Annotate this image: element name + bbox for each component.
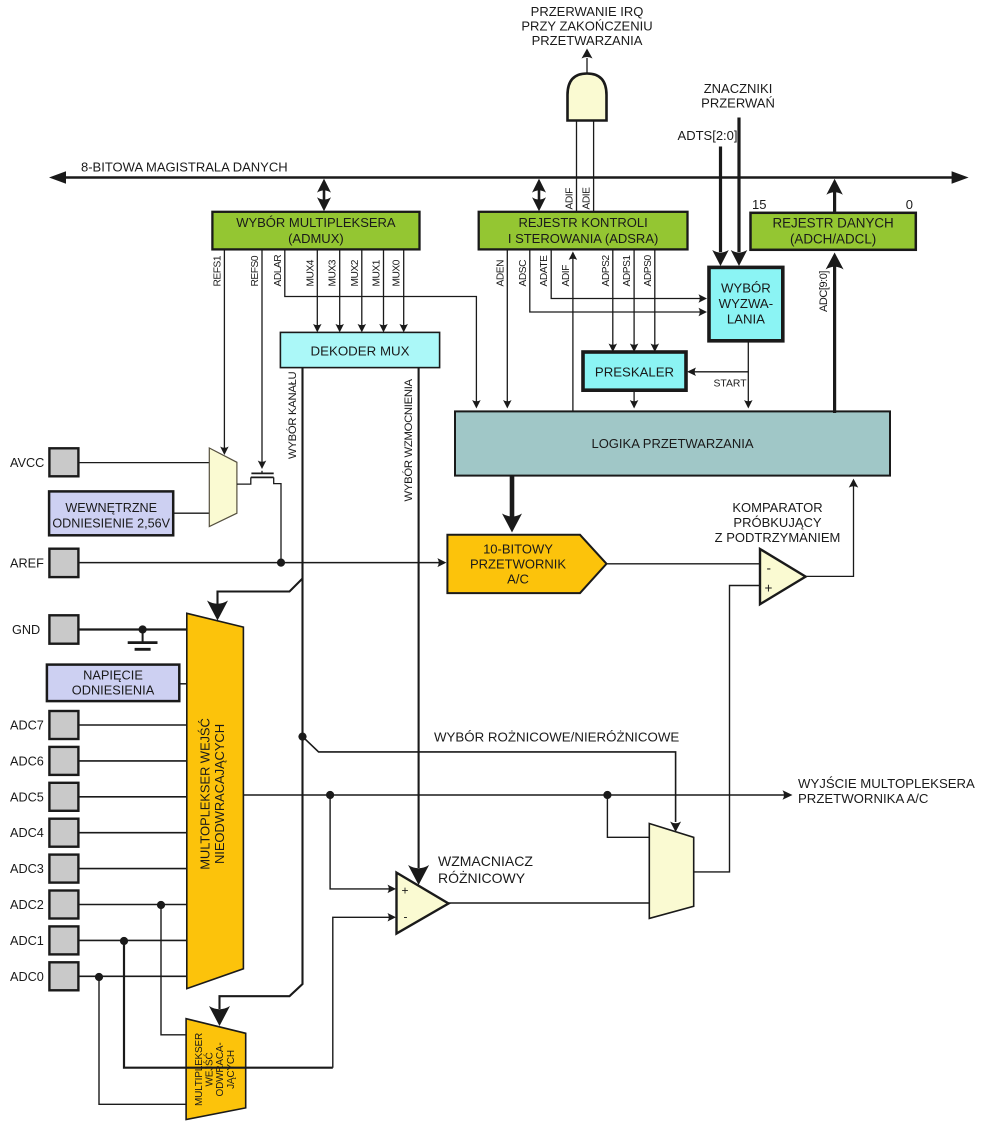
svg-text:15: 15 — [752, 197, 766, 212]
wire ADATE to trigger-select — [551, 249, 707, 302]
label ADC1 — [10, 934, 44, 948]
svg-text:ADPS0: ADPS0 — [643, 255, 654, 287]
label ADSC — [518, 260, 529, 287]
label START — [714, 379, 748, 390]
svg-text:+: + — [765, 581, 773, 596]
svg-text:REFS0: REFS0 — [250, 255, 261, 286]
ground symbol — [128, 630, 158, 650]
wire ADC7 to non-inverting mux — [78, 724, 186, 726]
wire ADC1 to non-inverting mux — [78, 939, 186, 941]
svg-text:WYBÓR ROŻNICOWE/NIERÓŻNICOWE: WYBÓR ROŻNICOWE/NIERÓŻNICOWE — [434, 730, 679, 745]
wire MUX0 — [399, 249, 408, 332]
node ADC1 junction — [120, 937, 128, 945]
svg-text:MUX4: MUX4 — [305, 259, 316, 286]
svg-text:0: 0 — [906, 197, 913, 212]
label ADPS1 — [622, 255, 633, 287]
svg-text:ADATE: ADATE — [539, 255, 550, 287]
channel select branch to non-inverting mux — [207, 579, 303, 621]
block WYBÓR WYZWALANIA (trigger select) — [709, 267, 783, 340]
svg-text:Z PODTRZYMANIEM: Z PODTRZYMANIEM — [715, 530, 841, 545]
svg-text:(ADCH/ADCL): (ADCH/ADCL) — [790, 232, 876, 247]
label ZNACZNIKI PRZERWAŃ — [701, 81, 775, 111]
wire mux output to single-ended input of output mux — [607, 795, 649, 837]
label ADIE (gate input) — [582, 187, 593, 210]
label ADC5 — [10, 790, 44, 804]
label MUX1 — [372, 259, 383, 286]
label ADC3 — [10, 862, 44, 876]
register box ADMUX — [212, 212, 419, 250]
wire comparator output to processing logic — [807, 479, 859, 577]
node AREF junction — [277, 559, 285, 567]
svg-text:ADPS2: ADPS2 — [601, 255, 612, 287]
block PRESKALER — [583, 352, 686, 390]
wire ADSC to trigger-select — [530, 249, 707, 316]
block MULTOPLEKSER WEJŚĆ NIEODWRACAJĄCYCH (non-inverting input mux) — [187, 613, 244, 988]
svg-text:ODNIESIENIA: ODNIESIENIA — [72, 683, 155, 698]
label MUX3 — [328, 259, 339, 286]
label ADPS2 — [601, 255, 612, 287]
svg-text:-: - — [767, 561, 772, 576]
wire ADLAR to processing logic — [285, 249, 481, 408]
svg-text:MULTIPLEKSER: MULTIPLEKSER — [194, 1033, 205, 1106]
label WYBÓR KANAŁU — [286, 371, 299, 459]
svg-text:ADC5: ADC5 — [10, 790, 44, 804]
node mux-output branch to amplifier — [326, 791, 334, 799]
svg-text:ADPS1: ADPS1 — [622, 255, 633, 287]
net WYBÓR KANAŁU (channel select trunk) — [209, 368, 303, 1026]
wire mux output to amplifier + input — [330, 795, 396, 893]
wire ADC0 to inverting mux — [99, 977, 188, 1104]
svg-text:WZMACNIACZ: WZMACNIACZ — [438, 853, 533, 869]
reference mux (trapezoid) — [209, 448, 237, 527]
pin AREF — [49, 549, 78, 577]
pin AVCC — [49, 448, 78, 476]
label ADC[9:0] — [818, 271, 830, 312]
svg-text:-: - — [404, 910, 408, 924]
bidirectional arrow ADSRA-bus — [532, 179, 546, 212]
node ADC0 junction — [95, 973, 103, 981]
svg-text:REJESTR DANYCH: REJESTR DANYCH — [772, 216, 893, 231]
svg-text:PRÓBKUJĄCY: PRÓBKUJĄCY — [733, 515, 821, 530]
svg-text:PRZETWORNIKA A/C: PRZETWORNIKA A/C — [798, 791, 929, 806]
block NAPIĘCIE ODNIESIENIA (reference voltage) — [47, 665, 179, 702]
wire inverting mux output to amplifier - input — [333, 913, 396, 1068]
svg-text:DEKODER MUX: DEKODER MUX — [311, 344, 410, 359]
label ADLAR — [273, 255, 284, 287]
pin ADC3 — [49, 855, 78, 883]
wire ADIF to and-gate — [576, 121, 578, 212]
wire prescaler to processing logic — [630, 390, 639, 408]
label ADC2 — [10, 898, 44, 912]
label MUX4 — [305, 259, 316, 286]
label WZMACNIACZ RÓŻNICOWY — [438, 853, 533, 886]
wire ADC4 to non-inverting mux — [78, 832, 186, 834]
label WYBÓR WZMOCNIENIA — [402, 378, 415, 501]
wire ADEN to processing logic — [503, 249, 512, 408]
block LOGIKA PRZETWARZANIA (processing logic) — [455, 411, 890, 475]
svg-text:JĄCYCH: JĄCYCH — [226, 1050, 237, 1089]
block 10-BITOWY PRZETWORNIK A/C — [447, 535, 606, 593]
svg-text:PRZETWARZANIA: PRZETWARZANIA — [532, 33, 643, 48]
label IRQ interrupt text — [521, 4, 652, 48]
wire ADPS1 to prescaler — [630, 249, 639, 352]
label ADC4 — [10, 826, 44, 840]
svg-text:GND: GND — [12, 623, 40, 637]
wire ADC3 to non-inverting mux — [78, 868, 186, 870]
label ADATE — [539, 255, 550, 287]
svg-text:(ADMUX): (ADMUX) — [288, 231, 344, 246]
svg-text:START: START — [714, 379, 748, 390]
svg-text:I STEROWANIA (ADSRA): I STEROWANIA (ADSRA) — [508, 231, 658, 246]
node GND junction — [139, 625, 147, 633]
transistor Q1 (reference switch) — [237, 471, 281, 563]
bidirectional arrow ADMUX-bus — [317, 179, 331, 212]
svg-text:LANIA: LANIA — [727, 312, 765, 327]
op-amp U3 (differential amplifier) — [397, 873, 449, 934]
svg-text:WEWNĘTRZNE: WEWNĘTRZNE — [65, 501, 157, 515]
wire ADC to comparator — [607, 563, 761, 565]
svg-text:ADEN: ADEN — [495, 260, 506, 287]
svg-text:+: + — [402, 884, 409, 898]
net WYBÓR WZMOCNIENIA (gain select) — [408, 368, 429, 885]
wire ADC2 to non-inverting mux — [78, 904, 186, 906]
pin ADC5 — [49, 783, 78, 811]
svg-text:ADC[9:0]: ADC[9:0] — [818, 271, 830, 312]
wire processing logic to 10-bit ADC (thick) — [502, 476, 522, 533]
svg-text:WYBÓR MULTIPLEKSERA: WYBÓR MULTIPLEKSERA — [236, 215, 396, 230]
svg-text:PRZERWAŃ: PRZERWAŃ — [701, 96, 775, 111]
pin ADC2 — [49, 891, 78, 919]
svg-text:ADIF: ADIF — [565, 188, 576, 210]
svg-text:ADSC: ADSC — [518, 260, 529, 287]
svg-text:MUX2: MUX2 — [350, 259, 361, 286]
block DEKODER MUX — [280, 332, 439, 367]
label WYJŚCIE MULTOPLEKSERA PRZETWORNIKA A/C — [798, 776, 975, 806]
bit label 0 — [906, 197, 913, 212]
wire ADC1 through inverting mux to amplifier input net — [124, 941, 333, 1068]
svg-text:ADLAR: ADLAR — [273, 255, 284, 287]
wire GND to non-inverting mux — [78, 628, 186, 630]
label ADIF (gate input) — [565, 188, 576, 210]
wire ADIE to and-gate — [593, 121, 595, 212]
pin GND — [49, 615, 78, 643]
node ADC2 junction — [157, 901, 165, 909]
svg-text:LOGIKA PRZETWARZANIA: LOGIKA PRZETWARZANIA — [591, 436, 753, 451]
svg-text:WYZWA-: WYZWA- — [719, 296, 773, 311]
node mux-output branch to output mux — [603, 791, 611, 799]
wire START to prescaler — [687, 368, 748, 377]
svg-text:A/C: A/C — [507, 571, 529, 586]
wire REFS0 — [258, 249, 267, 469]
block WEWNĘTRZNE ODNIESIENIE 2,56V (internal reference) — [49, 491, 173, 535]
register box ADCH/ADCL — [751, 213, 916, 250]
wire MUX4 — [313, 249, 322, 332]
svg-text:ADTS[2:0]: ADTS[2:0] — [678, 128, 738, 143]
bit label 15 — [752, 197, 766, 212]
wire MUX1 — [379, 249, 388, 332]
svg-text:REJESTR KONTROLI: REJESTR KONTROLI — [518, 215, 647, 230]
svg-text:PRZERWANIE IRQ: PRZERWANIE IRQ — [531, 4, 644, 19]
pin ADC1 — [49, 926, 78, 954]
svg-text:NIEODWRACAJĄCYCH: NIEODWRACAJĄCYCH — [212, 724, 227, 864]
svg-text:RÓŻNICOWY: RÓŻNICOWY — [438, 869, 526, 886]
svg-text:ADC3: ADC3 — [10, 862, 44, 876]
wire reference voltage to mux — [180, 683, 187, 685]
label ADC7 — [10, 719, 44, 733]
wire ADPS2 to prescaler — [609, 249, 618, 352]
pin ADC7 — [49, 711, 78, 739]
svg-text:ADC1: ADC1 — [10, 934, 44, 948]
net WYBÓR ROŻNICOWE/NIERÓŻNICOWE branch to output mux — [303, 737, 682, 832]
label ADTS[2:0] — [678, 128, 738, 143]
svg-text:ADC7: ADC7 — [10, 719, 44, 733]
net multiplexer output (ADC5 row) to output arrow — [243, 790, 792, 800]
net AREF to 10-bit ADC — [78, 558, 446, 567]
wire ADC2 to inverting mux — [161, 905, 186, 1035]
wire ADC6 to non-inverting mux — [78, 760, 186, 762]
svg-text:WYBÓR: WYBÓR — [721, 281, 771, 296]
svg-text:PRZETWORNIK: PRZETWORNIK — [470, 556, 566, 571]
label AREF — [10, 556, 44, 570]
svg-text:NAPIĘCIE: NAPIĘCIE — [83, 668, 143, 683]
label ADIF — [561, 265, 572, 287]
wire ADPS0 to prescaler — [651, 249, 660, 352]
svg-text:AREF: AREF — [10, 556, 44, 570]
comparator U2 (sample and hold) — [760, 549, 806, 604]
svg-text:MUX0: MUX0 — [392, 259, 403, 286]
label 8-BITOWA MAGISTRALA DANYCH — [81, 160, 288, 175]
wire ADTS[2:0] to trigger-select — [712, 147, 729, 267]
label ADC6 — [10, 754, 44, 768]
label REFS1 — [212, 255, 223, 286]
svg-text:REFS1: REFS1 — [212, 255, 223, 286]
svg-text:ADC0: ADC0 — [10, 970, 44, 984]
svg-text:10-BITOWY: 10-BITOWY — [483, 541, 553, 556]
label AVCC — [10, 456, 44, 470]
wire output mux to comparator + input — [694, 586, 760, 872]
svg-text:8-BITOWA MAGISTRALA DANYCH: 8-BITOWA MAGISTRALA DANYCH — [81, 160, 288, 175]
wire trigger-select to processing logic — [744, 341, 753, 409]
svg-text:KOMPARATOR: KOMPARATOR — [732, 500, 822, 515]
svg-text:ADC6: ADC6 — [10, 754, 44, 768]
wire MUX2 — [358, 249, 367, 332]
wire ADIF from processing logic to ADSRA — [569, 251, 578, 411]
bus ADC[9:0] logic to data register — [826, 253, 844, 414]
register box ADSRA — [479, 212, 688, 250]
svg-text:MUX1: MUX1 — [372, 259, 383, 286]
and-gate output wire — [582, 49, 593, 74]
pin ADC0 — [49, 962, 78, 990]
label ADPS0 — [643, 255, 654, 287]
svg-text:ADIF: ADIF — [561, 265, 572, 287]
label ADEN — [495, 260, 506, 287]
node channel-select / diff-select junction — [298, 733, 306, 741]
wire amplifier output to output mux — [449, 902, 650, 904]
label KOMPARATOR PRÓBKUJĄCY Z PODTRZYMANIEM — [715, 500, 841, 545]
svg-text:PRESKALER: PRESKALER — [595, 365, 674, 380]
label REFS0 — [250, 255, 261, 286]
svg-text:MUX3: MUX3 — [328, 259, 339, 286]
svg-text:ADIE: ADIE — [582, 187, 593, 210]
pin ADC4 — [49, 819, 78, 847]
block MULTIPLEKSER WEJŚĆ ODWRACAJĄCYCH (inverting input mux) — [186, 1019, 246, 1120]
svg-text:WEJŚĆ: WEJŚĆ — [203, 1052, 216, 1086]
wire REFS1 — [220, 249, 229, 455]
wire MUX3 — [335, 249, 344, 332]
wire AVCC to reference mux — [78, 462, 209, 464]
svg-text:ADC2: ADC2 — [10, 898, 44, 912]
label ADC0 — [10, 970, 44, 984]
pin ADC6 — [49, 747, 78, 775]
wire ADC5 to non-inverting mux — [78, 796, 186, 798]
label MUX2 — [350, 259, 361, 286]
svg-text:ODNIESIENIE 2,56V: ODNIESIENIE 2,56V — [52, 516, 170, 530]
svg-text:ZNACZNIKI: ZNACZNIKI — [704, 81, 773, 96]
label MUX0 — [392, 259, 403, 286]
svg-text:PRZY ZAKOŃCZENIU: PRZY ZAKOŃCZENIU — [521, 19, 652, 34]
svg-text:AVCC: AVCC — [10, 456, 44, 470]
svg-text:MULTOPLEKSER WEJŚĆ: MULTOPLEKSER WEJŚĆ — [198, 718, 213, 870]
wire ADC0 to non-inverting mux — [78, 975, 186, 977]
svg-text:WYBÓR KANAŁU: WYBÓR KANAŁU — [286, 371, 299, 459]
and-gate U1 (IRQ) — [568, 74, 607, 121]
label WYBÓR ROŻNICOWE/NIERÓŻNICOWE — [434, 730, 679, 745]
wire ZNACZNIKI PRZERWAŃ to trigger-select — [731, 118, 748, 267]
block output mux (single-ended / differential) — [649, 824, 693, 919]
label GND — [12, 623, 40, 637]
wire internal reference to reference mux — [173, 512, 210, 514]
arrow ADCH/ADCL register to bus — [826, 179, 843, 212]
svg-text:ODWRACA-: ODWRACA- — [215, 1043, 226, 1097]
svg-text:ADC4: ADC4 — [10, 826, 44, 840]
svg-text:WYBÓR WZMOCNIENIA: WYBÓR WZMOCNIENIA — [402, 378, 415, 501]
svg-text:WYJŚCIE MULTOPLEKSERA: WYJŚCIE MULTOPLEKSERA — [798, 776, 975, 791]
data bus (8-bit) horizontal line — [49, 171, 969, 184]
